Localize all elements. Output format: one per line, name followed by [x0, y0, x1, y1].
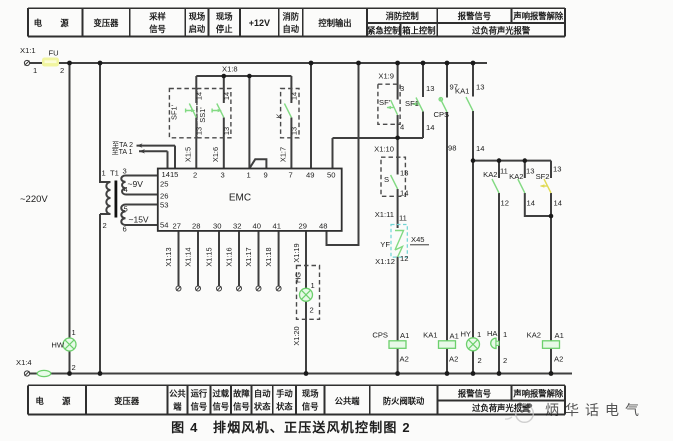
svg-text:1: 1: [311, 281, 315, 290]
svg-text:手动: 手动: [276, 389, 293, 399]
svg-text:28: 28: [192, 222, 200, 231]
svg-text:29: 29: [299, 222, 307, 231]
svg-text:54: 54: [160, 221, 168, 230]
svg-text:40: 40: [253, 222, 261, 231]
svg-text:14: 14: [222, 92, 231, 100]
svg-text:26: 26: [160, 192, 168, 201]
svg-text:X1:9: X1:9: [378, 72, 394, 81]
svg-text:图 4 排烟风机、正压送风机控制图 2: 图 4 排烟风机、正压送风机控制图 2: [171, 420, 411, 435]
svg-text:S: S: [384, 175, 389, 184]
svg-text:过负荷声光报警: 过负荷声光报警: [472, 26, 531, 36]
svg-text:1: 1: [102, 169, 106, 178]
svg-text:1: 1: [72, 328, 76, 337]
svg-text:箱上控制: 箱上控制: [402, 26, 435, 36]
svg-text:48: 48: [319, 222, 327, 231]
svg-text:电 源: 电 源: [36, 396, 79, 406]
svg-text:1: 1: [247, 171, 251, 180]
svg-text:信号: 信号: [233, 401, 250, 411]
svg-text:A2: A2: [449, 355, 458, 364]
svg-text:X1:14: X1:14: [184, 247, 193, 266]
svg-text:49: 49: [306, 171, 314, 180]
svg-text:SS1': SS1': [198, 107, 207, 123]
svg-text:EMC: EMC: [229, 193, 251, 204]
svg-text:~9V: ~9V: [128, 179, 144, 189]
svg-text:14: 14: [289, 92, 298, 100]
svg-text:12: 12: [400, 254, 408, 263]
svg-text:现场: 现场: [189, 11, 206, 21]
svg-text:X1:10: X1:10: [374, 145, 394, 154]
svg-text:KA1: KA1: [423, 331, 437, 340]
svg-text:13: 13: [195, 127, 204, 135]
svg-text:信号: 信号: [149, 24, 166, 34]
svg-text:至TA 1: 至TA 1: [112, 148, 133, 156]
svg-text:SF1': SF1': [170, 104, 179, 120]
svg-text:报警信号: 报警信号: [458, 388, 491, 398]
svg-text:自动: 自动: [254, 389, 271, 399]
svg-text:13: 13: [476, 83, 484, 92]
svg-text:X1:4: X1:4: [16, 358, 32, 367]
svg-text:14: 14: [426, 123, 434, 132]
svg-text:5: 5: [124, 205, 128, 214]
svg-text:13: 13: [426, 84, 434, 93]
svg-text:2: 2: [60, 66, 64, 75]
svg-text:+12V: +12V: [249, 18, 270, 28]
svg-text:25: 25: [160, 180, 168, 189]
svg-text:信号: 信号: [302, 401, 319, 411]
svg-text:公共端: 公共端: [335, 396, 361, 406]
svg-text:消防控制: 消防控制: [386, 11, 419, 21]
svg-text:13: 13: [553, 165, 561, 174]
svg-text:T1: T1: [110, 169, 119, 178]
svg-text:运行: 运行: [191, 389, 208, 399]
svg-text:12: 12: [501, 199, 509, 208]
svg-text:状态: 状态: [276, 401, 293, 411]
svg-text:30: 30: [213, 222, 221, 231]
svg-text:32: 32: [233, 222, 241, 231]
svg-text:X1:18: X1:18: [264, 247, 273, 266]
svg-text:A1: A1: [450, 332, 459, 341]
svg-text:X1:12: X1:12: [375, 257, 395, 266]
svg-text:X1:8: X1:8: [222, 65, 238, 74]
svg-text:停止: 停止: [216, 24, 233, 34]
svg-text:SF2: SF2: [536, 172, 550, 181]
svg-text:3: 3: [400, 84, 404, 93]
svg-text:X1:20: X1:20: [292, 326, 301, 345]
svg-text:~15V: ~15V: [129, 215, 149, 225]
svg-text:1: 1: [477, 330, 481, 339]
svg-text:9: 9: [264, 171, 268, 180]
svg-text:2: 2: [72, 363, 76, 372]
svg-text:X1:1: X1:1: [20, 46, 36, 55]
svg-text:HY: HY: [460, 330, 471, 339]
svg-text:2: 2: [103, 221, 107, 230]
svg-text:控制输出: 控制输出: [318, 18, 351, 28]
svg-text:启动: 启动: [189, 24, 206, 34]
svg-text:A2: A2: [554, 355, 563, 364]
svg-text:7: 7: [289, 171, 293, 180]
svg-text:自动: 自动: [282, 24, 299, 34]
svg-text:变压器: 变压器: [114, 396, 140, 406]
svg-text:现场: 现场: [216, 11, 233, 21]
svg-text:SF': SF': [379, 98, 391, 107]
svg-text:X1:11: X1:11: [375, 210, 394, 219]
svg-text:3: 3: [123, 167, 127, 176]
svg-text:变压器: 变压器: [94, 18, 120, 28]
svg-text:炳华话电气: 炳华话电气: [545, 402, 645, 418]
svg-text:13: 13: [222, 127, 231, 135]
svg-text:2: 2: [310, 306, 314, 315]
svg-text:14: 14: [195, 92, 204, 100]
svg-text:声响报警解除: 声响报警解除: [512, 11, 563, 21]
svg-text:电 源: 电 源: [34, 18, 77, 28]
svg-text:2: 2: [193, 171, 197, 180]
svg-text:X1:16: X1:16: [225, 247, 234, 266]
svg-text:信号: 信号: [191, 401, 208, 411]
svg-text:K: K: [275, 113, 284, 118]
svg-text:消防: 消防: [282, 11, 299, 21]
svg-text:11: 11: [399, 214, 407, 223]
svg-text:声响报警解除: 声响报警解除: [512, 388, 563, 398]
svg-text:A1: A1: [400, 331, 409, 340]
svg-text:1: 1: [33, 66, 37, 75]
svg-text:14: 14: [527, 199, 535, 208]
svg-text:过载: 过载: [212, 389, 229, 399]
svg-text:端: 端: [173, 401, 182, 411]
svg-text:X45: X45: [411, 235, 425, 244]
svg-text:14: 14: [400, 189, 408, 198]
svg-text:故障: 故障: [233, 389, 250, 399]
svg-text:KA2: KA2: [509, 172, 523, 181]
svg-text:YF: YF: [380, 240, 390, 249]
svg-text:报警信号: 报警信号: [458, 11, 491, 21]
svg-text:14: 14: [476, 144, 484, 153]
svg-text:X1:6: X1:6: [211, 147, 220, 162]
svg-text:14: 14: [554, 199, 562, 208]
svg-text:2: 2: [478, 356, 482, 365]
svg-text:2: 2: [503, 356, 507, 365]
svg-text:现场: 现场: [302, 389, 319, 399]
svg-text:A1: A1: [555, 331, 564, 340]
svg-text:紧急控制: 紧急控制: [367, 26, 400, 36]
svg-text:6: 6: [123, 225, 127, 234]
svg-text:公共: 公共: [169, 389, 186, 399]
svg-text:50: 50: [327, 171, 335, 180]
svg-text:HW: HW: [51, 341, 64, 350]
svg-text:A2: A2: [400, 355, 409, 364]
svg-text:98: 98: [448, 144, 456, 153]
svg-text:13: 13: [526, 167, 534, 176]
svg-text:X1:19: X1:19: [292, 243, 301, 262]
svg-text:防火阀联动: 防火阀联动: [383, 396, 425, 406]
svg-text:FU: FU: [49, 49, 59, 58]
svg-text:13: 13: [400, 169, 408, 178]
svg-text:13: 13: [289, 127, 298, 135]
svg-text:X1:15: X1:15: [205, 247, 214, 266]
svg-text:41: 41: [273, 222, 281, 231]
svg-text:KA2: KA2: [483, 170, 497, 179]
svg-text:X1:5: X1:5: [184, 147, 193, 162]
svg-text:X1:7: X1:7: [279, 147, 288, 162]
svg-text:1415: 1415: [162, 170, 179, 179]
svg-text:1: 1: [503, 330, 507, 339]
svg-text:信号: 信号: [212, 401, 229, 411]
svg-text:~220V: ~220V: [20, 194, 48, 205]
svg-text:3: 3: [221, 171, 225, 180]
svg-text:采样: 采样: [148, 11, 166, 21]
svg-text:CPS: CPS: [372, 331, 388, 340]
svg-text:HG: HG: [294, 272, 303, 283]
svg-text:4: 4: [400, 123, 404, 132]
svg-text:SF1: SF1: [405, 99, 419, 108]
svg-text:27: 27: [173, 222, 181, 231]
svg-text:53: 53: [160, 201, 168, 210]
svg-text:至TA 2: 至TA 2: [112, 141, 133, 149]
svg-text:KA1: KA1: [455, 87, 469, 96]
svg-text:X1:13: X1:13: [164, 247, 173, 266]
svg-text:X1:17: X1:17: [244, 247, 253, 266]
svg-text:11: 11: [500, 167, 508, 176]
svg-text:状态: 状态: [254, 401, 271, 411]
svg-text:HA: HA: [487, 329, 498, 338]
svg-text:KA2: KA2: [527, 331, 541, 340]
svg-text:CPS: CPS: [434, 110, 450, 119]
